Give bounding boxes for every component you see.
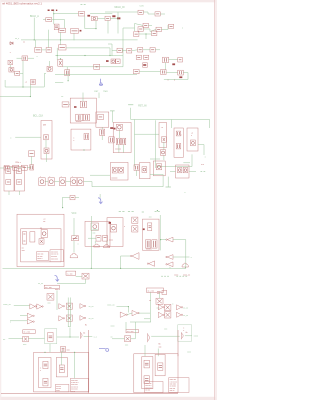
ic box U7: [187, 128, 198, 151]
svg-text:xx_x: xx_x: [15, 38, 19, 40]
wire: [45, 140, 47, 148]
wire hline y268.4 bus2: [3, 267, 186, 269]
capacitor C14: [178, 70, 184, 75]
ic box U3: [41, 121, 52, 160]
ic box IC2: [85, 221, 110, 246]
ic box U12: [142, 219, 159, 250]
ic box frame MOD1: [34, 352, 89, 392]
wire hline y74.5: [55, 74, 137, 76]
svg-text:xxxxxx: xxxxxx: [115, 149, 121, 151]
inverter G8a: [158, 305, 163, 310]
wire: [139, 33, 152, 35]
net label stub1: [161, 275, 163, 277]
fuse F1: [103, 244, 109, 247]
resistor R1: [46, 18, 52, 22]
label tag N$6: [114, 128, 116, 130]
wire: [105, 11, 138, 13]
wire: [148, 13, 155, 15]
capacitor C17: [134, 165, 139, 171]
svg-text:xx: xx: [68, 326, 70, 328]
svg-text:4x: 4x: [185, 332, 187, 334]
svg-text:220r x: 220r x: [15, 162, 21, 164]
wire: [144, 345, 146, 356]
wire: [52, 18, 54, 20]
small box sub2: [56, 358, 67, 377]
wire hline y55: [55, 55, 123, 57]
resistor R44: [43, 378, 48, 386]
wire: [20, 314, 27, 316]
capacitor C29: [59, 45, 67, 50]
label tag N$5: [179, 76, 182, 78]
wire: [159, 215, 161, 250]
junction dot: [157, 210, 158, 211]
svg-text:xxx: xxx: [149, 217, 152, 219]
wire: [4, 80, 6, 87]
label tag N$2: [117, 17, 120, 19]
wire: [143, 28, 150, 30]
diode row D15: [39, 178, 45, 186]
svg-text:xxxx: xxxx: [187, 352, 191, 354]
wire: [45, 181, 48, 183]
wire: [198, 144, 204, 146]
wire vpair: [67, 298, 69, 328]
resistor R15: [178, 58, 183, 62]
wire: [35, 40, 37, 48]
wire: [173, 239, 186, 241]
svg-text:RST_IN: RST_IN: [138, 105, 147, 107]
resistor R54: [17, 169, 22, 174]
svg-text:rel 4051_B05 schematics rev2.1: rel 4051_B05 schematics rev2.1: [2, 2, 42, 6]
resistor R36: [152, 240, 157, 248]
wire: [143, 11, 148, 13]
svg-text:+x: +x: [161, 127, 163, 129]
wire: [59, 65, 61, 68]
capacitor C25: [82, 273, 89, 279]
wire: [8, 191, 10, 195]
text block 5: [145, 382, 164, 393]
diode row D16: [48, 178, 54, 186]
svg-text:xx: xx: [62, 351, 64, 353]
diode D22: [156, 164, 161, 170]
diode D5: [44, 148, 49, 154]
capacitor C12: [136, 55, 141, 59]
wire: [112, 49, 117, 51]
text block 2: [50, 250, 63, 262]
svg-text:x: x: [181, 134, 182, 136]
svg-text:VCC: VCC: [72, 213, 77, 215]
blue mark flag1: [99, 79, 102, 86]
text block 3: [55, 384, 69, 392]
svg-text:xxxx_xx: xxxx_xx: [3, 304, 11, 306]
resistor R19: [13, 165, 19, 170]
ic box IC1 inner: [21, 229, 61, 262]
label tag N$1: [112, 15, 115, 17]
label tag N$4: [172, 63, 175, 65]
wire: [127, 313, 132, 315]
wire: [185, 335, 192, 337]
svg-text:xxx: xxx: [164, 328, 167, 330]
resistor R5: [155, 12, 160, 16]
label tag N$0: [87, 15, 90, 17]
capacitor C32: [109, 137, 115, 143]
wire: [43, 18, 46, 20]
wire hline y186.7: [92, 186, 163, 188]
svg-text:CLK: CLK: [140, 5, 145, 7]
row of caps C4-C7: [117, 48, 122, 52]
capacitor C2: [143, 23, 148, 27]
inverter G4c: [27, 319, 33, 324]
wire: [107, 20, 109, 33]
label tag N$8: [143, 228, 145, 230]
wire: [67, 76, 69, 81]
resistor R55: [17, 180, 22, 185]
svg-text:xx_xx: xx_xx: [89, 306, 94, 308]
small box X2: [162, 290, 167, 294]
svg-text:x + xxx: x + xxx: [67, 273, 73, 275]
box around LS2: [178, 325, 192, 341]
wire: [69, 328, 71, 338]
svg-text:x: x: [183, 330, 184, 332]
wire: [136, 170, 138, 176]
wire: [73, 218, 75, 236]
svg-text:x: x: [10, 321, 11, 323]
capacitor C30: [30, 165, 34, 170]
capacitor C1: [54, 24, 59, 30]
net stub SDA: [119, 210, 121, 212]
inverter G6b: [80, 316, 84, 321]
wire vline x123: [122, 28, 124, 56]
svg-text:xxx: xxx: [67, 350, 70, 352]
ic box U15: [15, 167, 25, 192]
crystal Q1: [8, 60, 13, 64]
ic box U3b: [71, 129, 91, 150]
wire vline x91.3: [90, 216, 92, 268]
small box sub3: [142, 357, 153, 389]
wire: [144, 318, 150, 320]
resistor R50: [59, 28, 66, 32]
diode D2: [10, 42, 13, 45]
inverter G8b: [177, 305, 182, 310]
resistor R43: [43, 361, 48, 368]
small box sub1: [38, 358, 51, 388]
crystal Q4: [162, 137, 167, 142]
svg-text:x: x: [40, 370, 41, 372]
label tag N$7: [109, 222, 111, 224]
inverter G5a: [59, 304, 63, 309]
trimmer R34: [72, 236, 79, 241]
svg-text:xx_xx: xx_xx: [183, 315, 188, 317]
resistor R25: [116, 138, 120, 145]
svg-text:xx: xx: [111, 336, 113, 338]
wire: [111, 44, 113, 56]
relay K3b: [103, 236, 108, 242]
supply VCC3: [93, 229, 98, 231]
inverter G1a: [132, 253, 139, 260]
wire: [170, 171, 176, 173]
wire: [90, 13, 112, 15]
svg-text:x: x: [191, 135, 192, 137]
wire: [61, 198, 63, 208]
resistor R51: [71, 29, 79, 34]
resistor R42: [164, 312, 171, 318]
svg-text:x: x: [10, 52, 11, 54]
wire: [139, 71, 160, 73]
resistor R17: [76, 114, 83, 121]
wire hline y134.2: [135, 133, 160, 135]
net stub top: [81, 4, 83, 6]
svg-text:+x: +x: [25, 81, 27, 83]
net stub SCK: [155, 210, 157, 212]
diode D20: [112, 167, 117, 173]
ic box U8: [111, 162, 129, 180]
ic box U9: [140, 163, 150, 179]
wire: [29, 84, 31, 96]
wire vline x134.5: [134, 120, 136, 167]
wire: [123, 27, 135, 29]
wire: [49, 344, 51, 353]
svg-text:xxxx xxx: xxxx xxx: [51, 258, 58, 260]
resistor R6: [138, 27, 143, 31]
inverter G9a: [158, 312, 163, 317]
capacitor C16: [4, 165, 9, 170]
wire: [88, 237, 96, 239]
inverter G5b: [80, 304, 84, 309]
supply VCC1: [128, 104, 133, 106]
svg-text:xx + xxx: xx + xxx: [148, 290, 155, 292]
diode D12: [39, 239, 44, 244]
ic box U11: [107, 218, 123, 247]
red hline bottom: [1, 392, 178, 394]
wire: [9, 338, 23, 340]
wire: [60, 32, 62, 44]
wire: [14, 305, 30, 307]
wire: [0, 167, 4, 169]
resistor R11: [46, 48, 52, 53]
wire: [9, 65, 11, 68]
svg-text:xx_xx: xx_xx: [183, 307, 188, 309]
wire: [89, 181, 93, 183]
resistor R10: [35, 48, 42, 53]
wire: [84, 16, 86, 29]
diode row D18: [71, 178, 77, 186]
arc comp LS3: [148, 333, 150, 342]
small box sub4: [155, 354, 165, 375]
resistor R21: [84, 134, 89, 140]
crystal Q7a: [132, 217, 138, 223]
wire vline x155.6: [155, 120, 157, 168]
capacitor C15: [62, 102, 69, 107]
resistor R14: [163, 57, 169, 62]
text box label: [66, 271, 76, 275]
resistor R7: [169, 24, 174, 28]
svg-text:xx: xx: [23, 42, 25, 44]
resistor R9: [152, 31, 157, 36]
wire: [160, 239, 161, 240]
svg-text:xxxxxx: xxxxxx: [111, 177, 117, 179]
svg-text:x+x: x+x: [201, 164, 204, 166]
wire hline y96: [0, 96, 30, 98]
wire: [57, 336, 79, 338]
resistor R27: [176, 131, 180, 136]
diode D11: [183, 167, 187, 172]
crystal Q3: [44, 135, 49, 140]
svg-text:xxxxxx: xxxxxx: [146, 249, 152, 251]
label tags top: [48, 10, 50, 12]
svg-text:x_x: x_x: [94, 337, 97, 339]
inverter G9b: [177, 312, 182, 317]
relay K2 contact: [30, 232, 35, 242]
svg-text:4M: 4M: [43, 125, 46, 127]
inverter G2c: [167, 262, 173, 267]
wire: [56, 290, 58, 310]
resistor R8: [134, 32, 139, 37]
resistor R47: [144, 376, 149, 384]
resistor R20: [21, 165, 27, 170]
diode D6: [116, 124, 122, 130]
inverter G3a: [30, 304, 35, 309]
resistor R23: [98, 114, 104, 120]
wire: [118, 130, 120, 138]
resistor R16: [80, 101, 86, 108]
resistor R40: [66, 315, 72, 321]
wire: [163, 142, 165, 149]
wire: [49, 61, 51, 66]
supply VCC4: [110, 110, 115, 112]
text block 6: [169, 378, 189, 393]
text block 4: [70, 378, 88, 392]
ic box U4: [96, 112, 109, 127]
box around F3: [45, 329, 57, 344]
inverter G3b: [37, 304, 42, 309]
capacitor C13: [161, 70, 167, 75]
svg-text:xx_xx: xx_xx: [89, 318, 94, 320]
net stub SCL: [128, 210, 130, 212]
wire: [117, 306, 129, 308]
svg-text:xx xxx: xx xxx: [145, 390, 150, 392]
resistor R4: [138, 10, 143, 14]
ic box IC1 outer: [17, 214, 64, 266]
wire: [76, 275, 82, 277]
capacitor C31: [65, 70, 70, 76]
wire: [121, 255, 131, 257]
diode D4: [111, 59, 115, 64]
resistor R28: [176, 144, 181, 149]
wire vline BCLK: [33, 18, 35, 40]
svg-text:xx + xxx: xx + xxx: [127, 331, 134, 333]
wire vline x57: [56, 48, 58, 60]
svg-text:xxx: xxx: [159, 346, 162, 348]
svg-text:BCLK_A: BCLK_A: [30, 15, 39, 18]
inverter G7b: [132, 310, 138, 315]
inverter G1c: [149, 261, 155, 266]
wire: [17, 57, 23, 59]
resistor R38: [156, 298, 163, 304]
svg-text:8x: 8x: [159, 344, 161, 346]
svg-text:x: x: [124, 226, 125, 228]
svg-text:8x: 8x: [85, 325, 87, 327]
opto OK3: [125, 336, 131, 342]
wire: [209, 120, 211, 129]
wire: [15, 136, 41, 138]
ic U13 inner: [91, 223, 99, 230]
wire: [106, 240, 108, 244]
wire: [31, 156, 33, 164]
wire hline y66.8: [63, 66, 123, 68]
diode D10: [178, 167, 182, 172]
resistor R56: [70, 195, 75, 199]
label tag N$3: [106, 60, 109, 62]
wire: [97, 17, 105, 19]
label tag U2: [74, 106, 77, 108]
wire: [99, 194, 101, 198]
wire: [191, 154, 193, 166]
wire: [55, 82, 63, 84]
svg-text:xxxxxx: xxxxxx: [76, 121, 82, 123]
svg-text:xx + xxx: xx + xxx: [45, 287, 52, 289]
net label stubs: [201, 170, 203, 172]
resistor R45: [59, 365, 64, 373]
wire: [173, 256, 190, 258]
svg-text:xx_xx: xx_xx: [38, 283, 43, 285]
svg-text:BCL_CLK: BCL_CLK: [33, 116, 44, 118]
inverter G7a: [120, 312, 126, 317]
resistor R37: [47, 294, 54, 301]
wire: [159, 292, 161, 298]
ic box U5: [113, 122, 131, 152]
svg-text:xxxx: xxxx: [109, 239, 113, 241]
net label stub2: [176, 275, 178, 277]
wire: [169, 267, 171, 269]
wire: [130, 321, 151, 323]
svg-text:xxx xx: xxx xx: [170, 390, 175, 392]
wire hline y47.9: [66, 47, 110, 49]
red label left2: [157, 291, 161, 293]
net stub mid: [142, 211, 144, 213]
text box MOD2: [126, 329, 138, 332]
ic U1 part: [143, 63, 148, 67]
gnd GND1: [167, 177, 169, 187]
diode D8: [191, 140, 196, 146]
svg-text:xx + xxx: xx + xxx: [24, 332, 31, 334]
wire: [150, 158, 160, 160]
fuse F3: [48, 333, 53, 342]
relay K1: [22, 56, 28, 61]
resistor R39: [66, 303, 72, 309]
blue mark flag4: [99, 348, 109, 351]
resistor R18: [29, 151, 35, 157]
transistor Q6: [70, 253, 78, 257]
relay K3a: [96, 236, 101, 242]
svg-text:xxxx x: xxxx x: [37, 258, 42, 260]
svg-text:MCLK_IN: MCLK_IN: [115, 7, 125, 9]
wire: [82, 93, 84, 102]
inverter G2a: [167, 237, 173, 242]
blue mark flag2: [98, 198, 103, 204]
resistor R41: [164, 304, 171, 310]
wire: [101, 127, 103, 129]
ic box U2: [70, 98, 96, 123]
wire: [117, 12, 119, 34]
inverter G2b: [167, 255, 173, 260]
wire: [134, 24, 136, 32]
text box RST MON: [147, 288, 164, 292]
buzzer LS1: [81, 332, 82, 339]
wire hline y175.2: [90, 174, 110, 176]
blue mark flag3: [55, 275, 60, 281]
text block 1: [36, 252, 48, 260]
transistor Q5: [94, 244, 100, 247]
svg-text:RST: RST: [94, 91, 99, 93]
